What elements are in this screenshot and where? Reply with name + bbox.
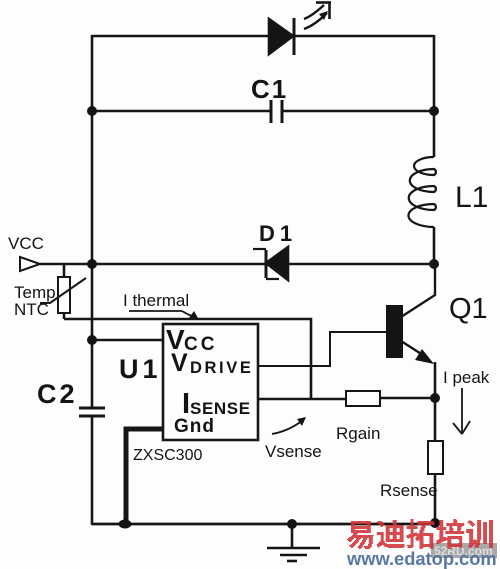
svg-text:NTC: NTC [14,300,49,319]
watermark 52RD.com box [431,543,497,558]
wire Rgain to emitter [380,397,435,400]
capacitor C2 [79,408,105,416]
node gnd-rail [119,520,132,529]
wire thermal to Isense [64,319,311,399]
ground [267,519,320,561]
svg-text:I thermal: I thermal [123,291,189,310]
label Vsense arrow [272,420,303,434]
inductor L1 [408,157,435,227]
svg-text:V: V [171,349,188,377]
svg-text:C1: C1 [251,74,288,104]
svg-text:CC: CC [184,334,217,355]
label I thermal arrow [129,311,198,318]
diode D1 [253,247,288,280]
wire VCC/D1 rail [40,263,434,266]
node VCC-left [87,259,97,269]
wire bottom rail [92,523,435,526]
svg-text:DRIVE: DRIVE [190,359,253,377]
svg-text:Q1: Q1 [449,293,488,325]
VCC terminal [20,257,40,271]
svg-text:VCC: VCC [8,234,44,253]
wire right vertical upper [433,35,436,157]
label I peak arrow [453,388,470,434]
wire Vcc pin [92,339,163,342]
svg-text:L1: L1 [455,181,488,214]
svg-text:Vsense: Vsense [265,442,322,461]
svg-text:Rsense: Rsense [380,481,438,500]
wire right vertical mid [433,227,436,265]
svg-text:U1: U1 [119,354,162,384]
svg-text:www.edatop.com: www.edatop.com [346,548,497,569]
thermistor NTC [40,264,86,319]
resistor Rsense [428,441,443,474]
wire Rsense to rail [434,474,437,524]
watermark red CJK "yi di tuo pei xun" [347,519,493,549]
svg-text:Gnd: Gnd [174,416,215,437]
node emitter [430,393,440,403]
svg-text:D1: D1 [259,221,297,246]
wire left vertical lower [91,417,94,525]
node U1 Vcc wire [87,335,97,345]
watermark [346,519,497,569]
wire left vertical upper [91,35,94,407]
wire top rail [92,35,434,38]
resistor Rgain [346,391,380,406]
wire Vdrive to base [258,332,388,366]
op-amp U1 (ZXSC300 IC) [163,324,258,440]
LED [269,2,331,55]
node bottom-right [430,518,440,528]
svg-text:I peak: I peak [443,368,490,387]
wire Gnd pin (thick) [126,429,163,523]
node D1-right [429,259,439,269]
svg-text:C2: C2 [37,379,78,409]
capacitor C1 [92,100,434,123]
transistor Q1 [386,264,435,399]
node left-C1 [87,106,97,116]
node right-C1 [429,106,439,116]
svg-text:ZXSC300: ZXSC300 [133,447,202,464]
wire Isense [258,398,346,401]
svg-text:Rgain: Rgain [336,424,380,443]
wire emitter to Rsense [434,398,437,441]
